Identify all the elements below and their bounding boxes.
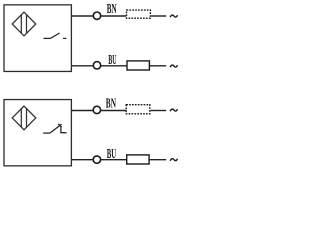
AC source tilde row 2: [170, 65, 177, 67]
proximity sensor symbol (diamond) 1: [12, 12, 36, 36]
svg-text:BU: BU: [107, 146, 117, 161]
svg-text:BN: BN: [107, 1, 117, 16]
terminal circle row 4: [93, 156, 100, 163]
NO switch contact in box 1: [44, 33, 67, 38]
load (solid box) row 2: [127, 61, 149, 70]
svg-text:BU: BU: [108, 52, 117, 67]
wire row 4: load to source: [149, 159, 166, 161]
AC source tilde row 3: [170, 109, 177, 111]
wire row 2: load to source: [149, 65, 166, 67]
terminal circle row 1: [93, 12, 100, 19]
terminal circle row 3: [93, 106, 100, 113]
terminal circle row 2: [93, 62, 100, 69]
wire row 1: terminal to load: [101, 15, 126, 17]
sensor body box 2 (NC output): [4, 100, 71, 166]
wire row 1: load to source: [151, 15, 166, 17]
wire BN row 1: box to terminal: [71, 15, 93, 17]
wire BU row 4: box to terminal: [71, 159, 93, 161]
load (solid box) row 4: [127, 155, 149, 164]
wire row 3: terminal to load: [101, 110, 126, 112]
wire row 4: terminal to load: [101, 159, 127, 161]
svg-text:BN: BN: [106, 95, 116, 110]
NC switch contact in box 2: [43, 124, 66, 133]
AC source tilde row 1: [170, 15, 177, 17]
wire row 2: terminal to load: [101, 65, 127, 67]
wire BU row 2: box to terminal: [71, 65, 93, 67]
AC source tilde row 4: [170, 159, 177, 161]
wire BN row 3: box to terminal: [71, 110, 93, 112]
optional load (dashed box) row 3: [126, 105, 150, 114]
wire row 3: load to source: [151, 110, 167, 112]
optional load (dashed box) row 1: [127, 10, 151, 18]
sensor body box 1 (NO output): [4, 5, 71, 72]
proximity sensor symbol (diamond) 2: [12, 106, 36, 130]
